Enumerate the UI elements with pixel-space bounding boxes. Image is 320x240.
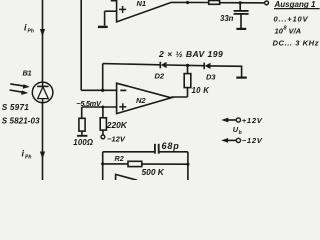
wire photodiode vertical top <box>42 0 44 82</box>
svg-text:Ph: Ph <box>25 155 31 161</box>
op-amp N3 (partial) <box>116 174 137 180</box>
photodiode triangle <box>38 87 49 99</box>
wire stub top edge <box>111 0 117 2</box>
junction dot output <box>186 1 189 4</box>
svg-text:N2: N2 <box>136 96 146 105</box>
label i_Ph top <box>24 23 34 35</box>
wire node A vertical <box>80 0 82 90</box>
svg-text:D3: D3 <box>206 73 216 82</box>
junction dot <box>101 89 104 92</box>
ground N1 <box>105 10 117 12</box>
N2 minus sign <box>120 89 126 91</box>
svg-text:−12V: −12V <box>107 134 126 143</box>
feedback box top line <box>103 151 154 153</box>
wire diode row left <box>103 64 160 65</box>
svg-text:100Ω: 100Ω <box>73 138 93 147</box>
resistor 100 ohm <box>81 107 83 118</box>
capacitor 68p <box>154 144 156 154</box>
op-amp N2 <box>117 83 172 113</box>
svg-text:Ausgang 1: Ausgang 1 <box>274 0 316 9</box>
label 100 ohm <box>73 138 93 147</box>
resistor R2 <box>128 161 142 166</box>
photodiode B1 circle <box>32 82 53 103</box>
light arrow 1 <box>10 84 25 86</box>
wire vertical to diode row <box>102 64 104 91</box>
label i_Ph bottom <box>22 149 32 161</box>
wire to terminal <box>220 2 265 4</box>
label 0...+10V <box>274 14 309 23</box>
svg-text:+12V: +12V <box>242 116 263 125</box>
svg-text:B1: B1 <box>23 68 32 77</box>
svg-text:10 K: 10 K <box>192 86 211 95</box>
feedback box right vertical <box>187 152 189 180</box>
photodiode cathode bar <box>37 85 49 87</box>
junction dot plus input <box>101 106 104 109</box>
wire N2 minus input row <box>81 89 116 91</box>
svg-text:S 5821-03: S 5821-03 <box>2 117 40 126</box>
label 10^8 V/A <box>275 26 302 36</box>
junction dot R2 left <box>101 162 104 165</box>
diode D2 <box>159 62 161 69</box>
svg-text:D2: D2 <box>155 71 165 80</box>
svg-text:68p: 68p <box>162 141 180 151</box>
current arrow i_Ph top <box>40 29 45 37</box>
ground diode row <box>236 76 247 78</box>
label DC...3KHz <box>273 38 320 47</box>
svg-text:−12V: −12V <box>242 136 263 145</box>
svg-text:0...+10V: 0...+10V <box>274 14 309 23</box>
label 2x1/2 BAV199 <box>158 49 223 59</box>
label 500 K <box>142 167 165 177</box>
label S 5971 <box>2 103 29 112</box>
wire D3 to ground <box>211 66 242 77</box>
junction dot diode row <box>186 64 189 67</box>
N1 plus sign <box>119 8 126 10</box>
N2 plus sign <box>119 106 126 108</box>
output terminal circle <box>265 1 269 5</box>
label -5,5mV <box>76 99 102 108</box>
ground 100 ohm <box>77 135 87 137</box>
label S 5821-03 <box>2 117 40 126</box>
wire R2 row <box>103 163 128 165</box>
label Ausgang 1 <box>274 0 316 9</box>
wire output row N1 <box>172 1 209 3</box>
svg-text:10: 10 <box>275 27 284 36</box>
resistor 220K <box>102 107 104 118</box>
terminal -12V <box>101 135 105 139</box>
capacitor C 33n <box>239 3 241 10</box>
label R2 <box>115 154 124 163</box>
svg-text:R2: R2 <box>115 154 124 163</box>
svg-text:220K: 220K <box>106 120 128 130</box>
svg-text:500 K: 500 K <box>142 167 165 177</box>
svg-text:−5,5mV: −5,5mV <box>76 99 102 108</box>
wire N2 output <box>171 96 187 98</box>
terminal +12V <box>226 119 236 121</box>
wire R2 to right <box>142 163 188 165</box>
label D2 <box>155 71 165 80</box>
feedback box left vertical <box>102 152 104 180</box>
resistor output (unlabeled) <box>209 1 220 5</box>
ground capacitor <box>236 28 246 30</box>
op-amp N1 <box>117 0 172 22</box>
label N2 <box>136 96 146 105</box>
wire N2 plus input row <box>82 106 117 108</box>
svg-text:S 5971: S 5971 <box>2 103 29 112</box>
terminal -12V supply <box>226 139 236 141</box>
label 10 K <box>192 86 211 95</box>
junction dot capacitor <box>239 1 242 4</box>
svg-text:Ph: Ph <box>28 29 34 35</box>
label D3 <box>206 73 216 82</box>
wire through photodiode <box>42 82 44 86</box>
svg-text:N1: N1 <box>137 0 147 8</box>
diode D3 <box>203 63 205 70</box>
label Ub <box>233 125 242 136</box>
junction dot R2 right <box>186 163 189 166</box>
svg-text:DC... 3 KHz: DC... 3 KHz <box>273 38 320 47</box>
underline <box>274 8 320 10</box>
label B1 <box>23 68 32 77</box>
svg-text:b: b <box>239 130 242 136</box>
wire photodiode vertical bottom <box>42 103 44 180</box>
current arrow i_Ph bottom <box>40 152 45 160</box>
label 220K <box>106 120 128 130</box>
svg-text:V/A: V/A <box>289 27 302 36</box>
svg-text:33n: 33n <box>220 14 234 23</box>
light arrow 2 <box>10 90 25 92</box>
resistor 10K <box>187 65 189 73</box>
svg-text:2 × ½ BAV 199: 2 × ½ BAV 199 <box>158 49 223 59</box>
label 68p <box>162 141 180 151</box>
label N1 <box>137 0 147 8</box>
wire D2 to junction <box>167 64 204 67</box>
label 33n <box>220 14 234 23</box>
